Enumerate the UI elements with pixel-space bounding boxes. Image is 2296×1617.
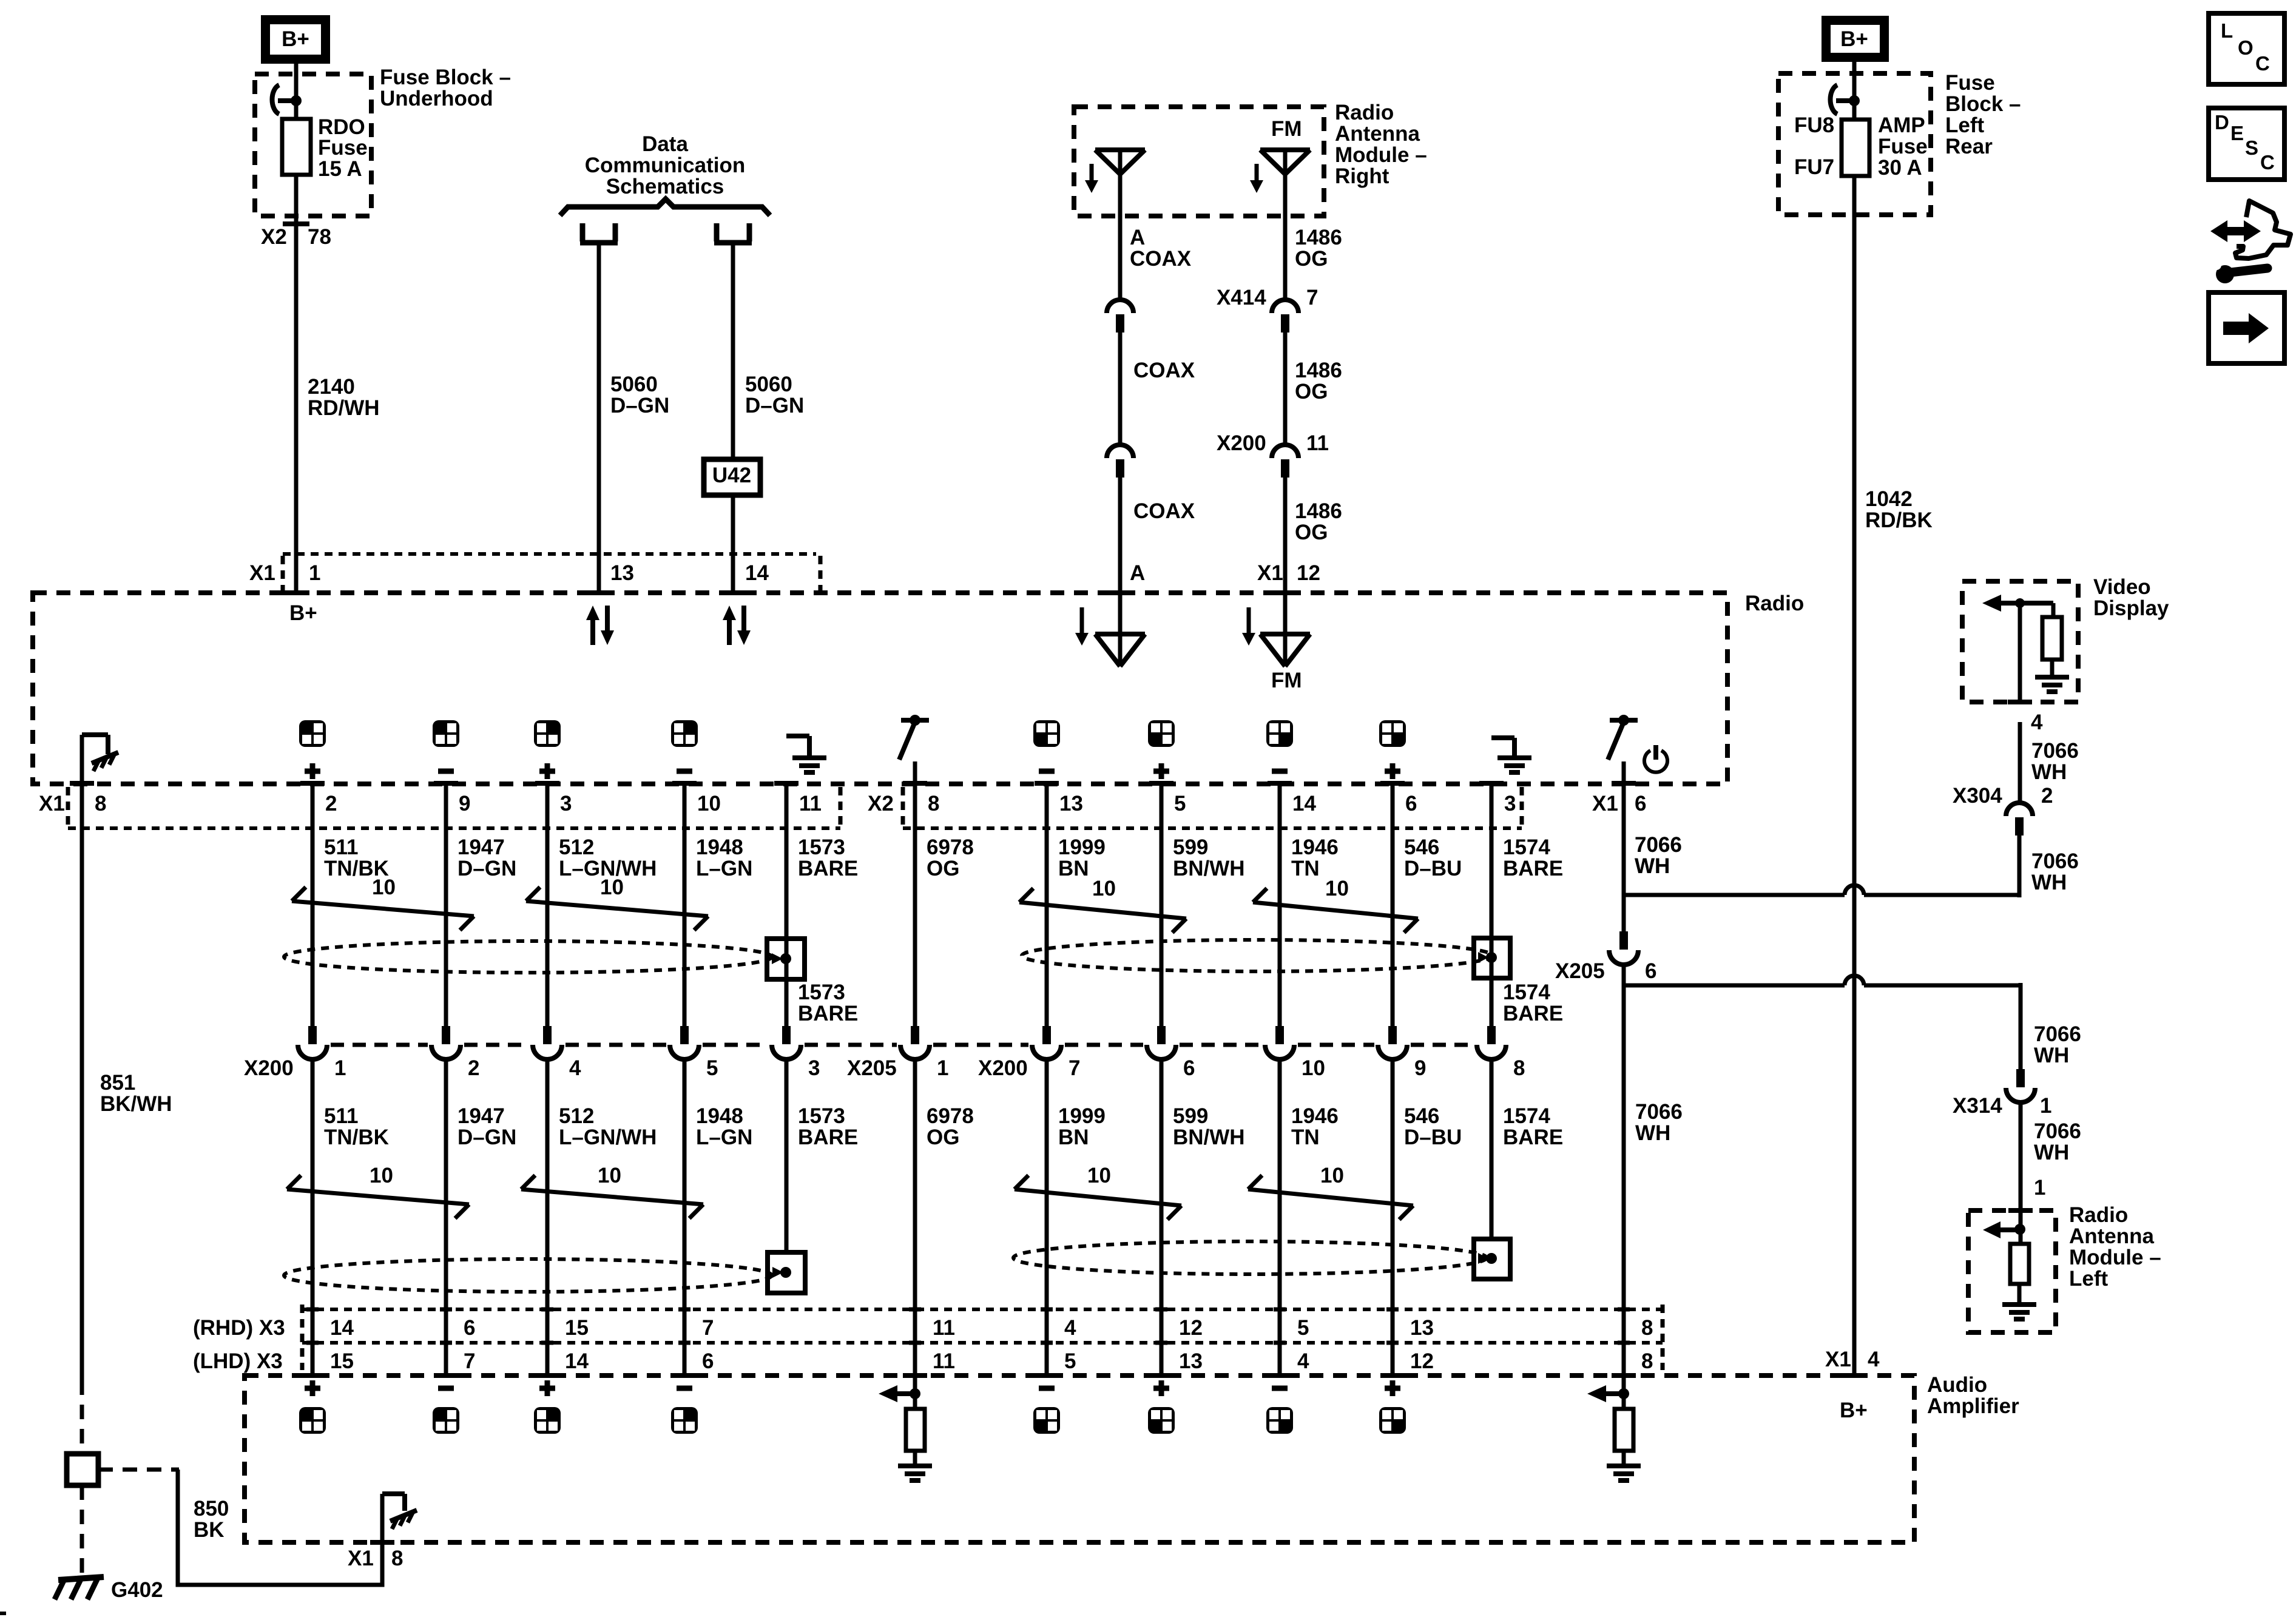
serial data up/down arrows (pin 14) xyxy=(727,619,732,645)
svg-text:WH: WH xyxy=(2031,760,2067,784)
svg-text:X2: X2 xyxy=(261,225,287,249)
svg-text:Module –: Module – xyxy=(2069,1246,2161,1269)
wire horizontal run 2 corner down to X314 xyxy=(2019,983,2023,1069)
plus sign RF+ (radio) xyxy=(539,769,555,774)
svg-text:7066: 7066 xyxy=(2034,1022,2081,1046)
svg-text:6978: 6978 xyxy=(927,1104,974,1128)
svg-text:D–GN: D–GN xyxy=(458,1126,516,1149)
svg-text:13: 13 xyxy=(610,561,634,585)
svg-text:1: 1 xyxy=(937,1056,948,1080)
svg-text:A: A xyxy=(1130,561,1145,585)
svg-text:COAX: COAX xyxy=(1130,247,1192,271)
signal down-arrow in module (right) xyxy=(1255,164,1259,181)
svg-text:TN/BK: TN/BK xyxy=(324,1126,389,1149)
svg-text:10: 10 xyxy=(370,1164,393,1187)
video display earth ground xyxy=(2035,675,2069,680)
svg-text:11: 11 xyxy=(1306,431,1329,455)
plus sign LR+ (radio) xyxy=(1153,769,1169,774)
amplifier chassis ground glyph xyxy=(390,1510,417,1521)
svg-text:X304: X304 xyxy=(1953,784,2002,808)
svg-text:7066: 7066 xyxy=(1635,833,1682,857)
amplifier internal arrow (6978) xyxy=(879,1385,897,1402)
svg-text:RD/BK: RD/BK xyxy=(1865,508,1933,532)
twisted-pair marker LR (lower) xyxy=(1015,1189,1181,1206)
svg-text:1: 1 xyxy=(334,1056,346,1080)
video display internal arrow xyxy=(1982,595,2001,612)
speaker icon LF+ (radio) xyxy=(299,720,326,747)
fusible clip symbol at AMP fuse xyxy=(1830,85,1837,114)
svg-text:11: 11 xyxy=(799,792,822,815)
shield ellipse right (upper) xyxy=(1022,940,1493,971)
connector X1 bracket left xyxy=(281,556,285,592)
svg-text:6: 6 xyxy=(702,1349,714,1373)
speaker icon RR+ (radio) xyxy=(1379,720,1406,747)
svg-text:3: 3 xyxy=(560,792,572,815)
svg-text:Antenna: Antenna xyxy=(1335,122,1420,146)
in-line connector X414 pin 7 xyxy=(1272,300,1298,313)
svg-text:9: 9 xyxy=(1414,1056,1426,1080)
svg-text:OG: OG xyxy=(927,1126,959,1149)
svg-text:4: 4 xyxy=(569,1056,581,1080)
svg-text:30 A: 30 A xyxy=(1878,156,1922,180)
svg-text:Fuse: Fuse xyxy=(1878,135,1928,158)
svg-text:BARE: BARE xyxy=(798,1126,858,1149)
Fuse Block - Left Rear dashed box xyxy=(1778,73,1931,215)
coax wire A segment 1 xyxy=(1118,174,1123,300)
wire 851 splice to G402 (dashed) xyxy=(80,1485,84,1573)
svg-text:Radio: Radio xyxy=(1335,101,1394,124)
svg-text:L: L xyxy=(2221,19,2233,42)
svg-text:B+: B+ xyxy=(282,27,309,51)
svg-text:10: 10 xyxy=(1302,1056,1325,1080)
wire video to X304 xyxy=(2018,722,2022,803)
svg-text:OG: OG xyxy=(1295,380,1328,403)
Audio Amplifier dashed box xyxy=(245,1376,1914,1542)
speaker wires radio to X200/X205 connectors (upper) xyxy=(311,783,315,1027)
svg-text:1947: 1947 xyxy=(458,836,505,859)
svg-text:14: 14 xyxy=(745,561,769,585)
antenna module left resistor xyxy=(2010,1244,2029,1284)
svg-text:4: 4 xyxy=(2031,711,2043,734)
antenna module left earth ground xyxy=(2002,1302,2036,1307)
power feed B+ terminal box (right) xyxy=(1822,16,1889,62)
svg-text:Module –: Module – xyxy=(1335,143,1427,167)
svg-text:12: 12 xyxy=(1297,561,1320,585)
wire 5060 D-GN (to X1 pin 13) xyxy=(597,243,601,593)
svg-text:BARE: BARE xyxy=(1503,857,1563,880)
ground splice junction box xyxy=(67,1454,98,1485)
svg-text:(RHD) X3: (RHD) X3 xyxy=(193,1316,285,1340)
FM antenna input symbol A xyxy=(1118,593,1123,666)
amplifier ground hook (850) xyxy=(382,1491,405,1496)
amplifier speaker output signs and icons xyxy=(305,1386,320,1391)
minus sign RR- (radio) xyxy=(1272,769,1288,774)
coax wire A segment 2 xyxy=(1118,333,1123,445)
svg-text:BN/WH: BN/WH xyxy=(1173,857,1245,880)
svg-text:1: 1 xyxy=(309,561,320,585)
plus sign RR+ (radio) xyxy=(1385,769,1400,774)
svg-text:TN: TN xyxy=(1291,1126,1320,1149)
wire 1042 RD/BK (fuse to amplifier X1 pin 4) xyxy=(1852,176,1857,1374)
pin 13 tick at radio X1 xyxy=(586,590,612,595)
wire 7066 WH radio to X205 xyxy=(1622,783,1626,931)
svg-text:Schematics: Schematics xyxy=(606,175,724,198)
svg-text:X205: X205 xyxy=(1555,959,1605,983)
svg-text:E: E xyxy=(2230,122,2244,144)
svg-text:WH: WH xyxy=(1635,854,1670,878)
svg-text:10: 10 xyxy=(1325,877,1349,900)
svg-text:1486: 1486 xyxy=(1295,226,1342,249)
svg-text:7: 7 xyxy=(1306,286,1318,309)
svg-text:10: 10 xyxy=(697,792,721,815)
svg-text:WH: WH xyxy=(2031,871,2067,894)
svg-text:1573: 1573 xyxy=(798,836,845,859)
svg-text:7066: 7066 xyxy=(2031,739,2079,763)
svg-text:8: 8 xyxy=(1513,1056,1525,1080)
svg-text:Radio: Radio xyxy=(2069,1203,2128,1227)
svg-text:14: 14 xyxy=(565,1349,589,1373)
twisted-pair marker RR (lower) xyxy=(1248,1189,1413,1206)
svg-text:O: O xyxy=(2238,36,2254,59)
shield termination box 1574 (upper) xyxy=(1474,938,1510,978)
svg-text:WH: WH xyxy=(2034,1141,2069,1164)
fuse RDO 15A symbol xyxy=(282,119,311,175)
pin A tick at radio X1 xyxy=(1107,590,1133,595)
svg-text:546: 546 xyxy=(1404,836,1439,859)
svg-text:9: 9 xyxy=(459,792,470,815)
svg-text:Block –: Block – xyxy=(1945,92,2021,116)
page-link terminal (serial data wire 2) xyxy=(714,223,752,243)
next-page arrow icon box xyxy=(2209,292,2284,363)
speaker icon LR- (radio) xyxy=(1033,720,1060,747)
splice U42 box xyxy=(704,459,760,495)
svg-text:Rear: Rear xyxy=(1945,135,1993,158)
svg-text:TN: TN xyxy=(1291,857,1320,880)
svg-text:FU8: FU8 xyxy=(1794,113,1834,137)
diagnostic hand icon wrench xyxy=(2216,265,2234,283)
amplifier internal resistor (7066) xyxy=(1615,1409,1633,1451)
speaker icon RF- (radio) xyxy=(671,720,698,747)
svg-text:U42: U42 xyxy=(712,464,751,487)
svg-text:Fuse Block –: Fuse Block – xyxy=(380,66,511,89)
Radio Antenna Module - Left dashed box xyxy=(1968,1210,2056,1332)
coax wire FM segment 3 xyxy=(1283,478,1288,593)
Video Display dashed box xyxy=(1962,581,2078,702)
svg-text:1574: 1574 xyxy=(1503,1104,1550,1128)
svg-text:8: 8 xyxy=(928,792,939,815)
svg-text:S: S xyxy=(2245,137,2258,159)
FM antenna down-arrow left xyxy=(1080,607,1084,633)
svg-text:X414: X414 xyxy=(1217,286,1266,309)
svg-text:6: 6 xyxy=(1183,1056,1195,1080)
svg-text:WH: WH xyxy=(2034,1044,2069,1067)
pin 12 tick at radio X1 xyxy=(1272,590,1298,595)
fusible clip symbol at RDO fuse xyxy=(272,85,279,114)
svg-text:FU7: FU7 xyxy=(1794,155,1834,179)
svg-text:FM: FM xyxy=(1271,117,1302,141)
svg-text:8: 8 xyxy=(95,792,106,815)
twisted-pair marker LF (lower) xyxy=(287,1189,469,1204)
svg-text:3: 3 xyxy=(808,1056,820,1080)
svg-text:L–GN: L–GN xyxy=(696,857,752,880)
amplifier input junction (6978) xyxy=(913,1376,917,1409)
svg-text:X1: X1 xyxy=(39,792,65,815)
svg-text:FM: FM xyxy=(1271,669,1302,692)
connector strip X1 dotted line (bottom) xyxy=(68,826,840,830)
shield termination box 1574 (lower) xyxy=(1474,1239,1510,1279)
module left pin tick xyxy=(2008,1208,2033,1213)
FM antenna down-arrow right xyxy=(1247,607,1251,633)
svg-text:D–BU: D–BU xyxy=(1404,1126,1462,1149)
connector X1 bracket right xyxy=(819,556,823,592)
svg-text:12: 12 xyxy=(1179,1316,1203,1340)
svg-text:5: 5 xyxy=(1297,1316,1309,1340)
wire 851 BK/WH (radio ground) xyxy=(80,735,84,1380)
svg-text:COAX: COAX xyxy=(1133,359,1195,382)
speaker icon RR- (radio) xyxy=(1266,720,1293,747)
amplifier internal arrow (7066) xyxy=(1587,1385,1606,1402)
svg-text:10: 10 xyxy=(1092,877,1116,900)
svg-text:850: 850 xyxy=(194,1497,229,1521)
svg-text:1948: 1948 xyxy=(696,1104,743,1128)
svg-text:Right: Right xyxy=(1335,164,1389,188)
svg-text:L–GN/WH: L–GN/WH xyxy=(559,1126,657,1149)
svg-text:Amplifier: Amplifier xyxy=(1927,1394,2019,1418)
svg-text:15: 15 xyxy=(565,1316,589,1340)
X3 strip wire ticks xyxy=(306,1308,319,1312)
svg-text:Data: Data xyxy=(642,132,688,156)
svg-text:B+: B+ xyxy=(1840,27,1868,51)
X200/X205 connector link dashes xyxy=(331,1043,428,1047)
svg-text:13: 13 xyxy=(1410,1316,1434,1340)
svg-text:599: 599 xyxy=(1173,836,1208,859)
svg-text:Audio: Audio xyxy=(1927,1373,1987,1397)
wire 7066 WH horizontal run 2 (to X314) xyxy=(1625,984,1845,988)
in-line connector X304 pin 2 xyxy=(2006,803,2033,816)
connector strip X1 dotted line (top) xyxy=(283,552,816,556)
svg-text:6: 6 xyxy=(1645,959,1656,983)
svg-text:B+: B+ xyxy=(289,601,317,625)
shield termination box 1573 (upper) xyxy=(767,939,805,979)
in-line connector X205 pin 6 xyxy=(1619,931,1628,950)
diagnostic hand icon double arrow xyxy=(2210,220,2261,242)
svg-text:C: C xyxy=(2260,151,2275,174)
pin 8 tick at amplifier X1 (850) xyxy=(370,1540,394,1545)
svg-text:7066: 7066 xyxy=(2034,1119,2081,1143)
radio shield ground hook (1574) xyxy=(1491,735,1514,740)
svg-text:Fuse: Fuse xyxy=(318,136,368,160)
twisted-pair marker RF (upper) xyxy=(526,901,708,916)
diagnostic hand icon outline xyxy=(2235,201,2291,258)
svg-text:1946: 1946 xyxy=(1291,836,1339,859)
svg-text:X200: X200 xyxy=(1217,431,1266,455)
power feed B+ terminal box (left) xyxy=(261,15,330,64)
svg-text:Left: Left xyxy=(1945,113,1985,137)
svg-text:B+: B+ xyxy=(1840,1399,1868,1422)
svg-text:7: 7 xyxy=(702,1316,714,1340)
svg-text:10: 10 xyxy=(1087,1164,1111,1187)
svg-text:X314: X314 xyxy=(1953,1094,2002,1118)
svg-text:8: 8 xyxy=(1641,1316,1653,1340)
Radio Antenna Module - Right dashed box xyxy=(1074,107,1324,216)
svg-text:OG: OG xyxy=(927,857,959,880)
wire 7066 WH horizontal run 1 (to video display) xyxy=(1624,893,1845,897)
radio shield earth ground (1574) xyxy=(1497,755,1531,760)
minus sign LR- (radio) xyxy=(1039,769,1055,774)
video display internal resistor branch xyxy=(2051,603,2056,617)
svg-text:13: 13 xyxy=(1059,792,1083,815)
shield termination box 1573 (lower) xyxy=(768,1252,805,1293)
wire 851 dashed section xyxy=(80,1380,84,1454)
svg-text:5: 5 xyxy=(1174,792,1186,815)
pin 14 tick at radio X1 xyxy=(720,590,746,595)
twisted-pair marker LR (upper) xyxy=(1019,902,1186,919)
svg-text:7066: 7066 xyxy=(1635,1100,1683,1124)
svg-text:14: 14 xyxy=(1292,792,1316,815)
speaker icon LR+ (radio) xyxy=(1148,720,1175,747)
svg-text:78: 78 xyxy=(308,225,331,249)
svg-text:(LHD) X3: (LHD) X3 xyxy=(193,1349,283,1373)
svg-text:5060: 5060 xyxy=(610,373,658,396)
svg-text:X200: X200 xyxy=(244,1056,294,1080)
svg-text:BN: BN xyxy=(1058,857,1089,880)
svg-text:512: 512 xyxy=(559,1104,594,1128)
page-link terminal (serial data wire 1) xyxy=(580,223,618,243)
connector X3 RHD dotted line xyxy=(302,1308,1663,1311)
radio bottom pin ticks and numbers xyxy=(1612,781,1636,786)
svg-text:1946: 1946 xyxy=(1291,1104,1339,1128)
svg-text:X200: X200 xyxy=(978,1056,1028,1080)
svg-text:1999: 1999 xyxy=(1058,836,1106,859)
svg-text:Left: Left xyxy=(2069,1267,2109,1291)
shield ellipse left (upper) xyxy=(284,941,772,973)
svg-text:7066: 7066 xyxy=(2031,849,2079,873)
svg-text:X1: X1 xyxy=(1257,561,1283,585)
svg-text:BK: BK xyxy=(194,1518,225,1542)
svg-text:Video: Video xyxy=(2093,575,2151,599)
svg-text:BARE: BARE xyxy=(1503,1002,1563,1025)
connector X3 LHD dotted line xyxy=(302,1341,1663,1345)
svg-text:511: 511 xyxy=(324,836,358,859)
svg-text:4: 4 xyxy=(1297,1349,1309,1373)
svg-text:2: 2 xyxy=(468,1056,479,1080)
coax wire A segment 3 xyxy=(1118,478,1123,593)
svg-text:15: 15 xyxy=(330,1349,354,1373)
wire from B+ to fuse RDO xyxy=(294,64,299,119)
DESC icon box xyxy=(2209,108,2284,180)
speaker icon RF+ (radio) xyxy=(534,720,561,747)
twisted-pair marker RR (upper) xyxy=(1253,902,1418,919)
FM antenna input symbol FM xyxy=(1283,593,1288,666)
svg-text:BK/WH: BK/WH xyxy=(100,1092,172,1116)
wire 7066 WH below X205 xyxy=(1622,964,1626,1374)
antenna module left junction and arrow xyxy=(2019,1210,2023,1244)
fuse AMP 30A symbol xyxy=(1842,120,1869,176)
Fuse Block - Underhood dashed box xyxy=(255,74,371,216)
amplifier earth ground (6978) xyxy=(898,1463,932,1468)
svg-text:11: 11 xyxy=(933,1316,955,1340)
svg-text:13: 13 xyxy=(1179,1349,1203,1373)
radio shield earth ground (1573) xyxy=(792,755,826,760)
svg-text:WH: WH xyxy=(1635,1121,1670,1145)
connector X3 bracket right xyxy=(1661,1305,1665,1370)
svg-text:1574: 1574 xyxy=(1503,981,1550,1004)
svg-text:Radio: Radio xyxy=(1745,592,1804,615)
radio power-on symbol xyxy=(1644,751,1667,772)
svg-text:BN/WH: BN/WH xyxy=(1173,1126,1245,1149)
antenna symbol A xyxy=(1095,147,1145,152)
plus sign LF+ (radio) xyxy=(305,769,320,774)
wire X314 to antenna module left xyxy=(2019,1101,2023,1209)
svg-text:10: 10 xyxy=(600,876,624,899)
speaker wires X200/X205 to amplifier (lower) xyxy=(311,1058,315,1374)
minus sign LF- (radio) xyxy=(438,769,454,774)
svg-text:5060: 5060 xyxy=(745,373,792,396)
svg-text:1573: 1573 xyxy=(798,1104,845,1128)
connector X2 bracket left xyxy=(901,787,905,825)
svg-text:6: 6 xyxy=(1635,792,1646,815)
in-line connector X314 pin 1 xyxy=(2016,1069,2025,1087)
svg-text:BARE: BARE xyxy=(1503,1126,1563,1149)
antenna symbol FM xyxy=(1260,147,1310,152)
brace under Data Communication Schematics xyxy=(560,199,770,215)
connector strip X2 dotted line (bottom) xyxy=(903,826,1522,830)
wire from B+ to AMP fuse xyxy=(1852,62,1857,120)
connector X3 bracket left xyxy=(300,1305,305,1370)
svg-text:BN: BN xyxy=(1058,1126,1089,1149)
speaker icon LF- (radio) xyxy=(433,720,459,747)
radio shield ground hook (1573) xyxy=(786,734,809,738)
antenna module left ground wire xyxy=(2017,1284,2022,1303)
radio internal chassis ground glyph (left) xyxy=(92,752,118,763)
svg-text:8: 8 xyxy=(1641,1349,1653,1373)
svg-text:10: 10 xyxy=(1320,1164,1344,1187)
svg-text:2140: 2140 xyxy=(308,375,355,399)
svg-text:511: 511 xyxy=(324,1104,358,1128)
svg-text:1: 1 xyxy=(2040,1094,2051,1118)
svg-text:D–GN: D–GN xyxy=(745,394,804,417)
svg-text:851: 851 xyxy=(100,1071,135,1095)
svg-text:7: 7 xyxy=(464,1349,475,1373)
radio internal switch (7066 output) xyxy=(1610,718,1638,723)
svg-text:A: A xyxy=(1130,226,1145,249)
svg-text:6: 6 xyxy=(1405,792,1417,815)
svg-text:1574: 1574 xyxy=(1503,836,1550,859)
svg-text:Display: Display xyxy=(2093,596,2169,620)
svg-text:1486: 1486 xyxy=(1295,499,1342,523)
svg-text:RD/WH: RD/WH xyxy=(308,396,380,420)
svg-text:X1: X1 xyxy=(348,1547,374,1570)
amplifier input junction (7066) xyxy=(1622,1376,1626,1409)
amplifier internal ground wire (6978) xyxy=(913,1451,917,1465)
shield ellipse right (lower) xyxy=(1013,1241,1487,1274)
svg-text:OG: OG xyxy=(1295,521,1328,544)
minus sign RF- (radio) xyxy=(677,769,692,774)
shield ellipse left (lower) xyxy=(284,1259,772,1292)
svg-text:C: C xyxy=(2255,52,2270,75)
page corner mark xyxy=(0,1612,6,1615)
svg-text:Underhood: Underhood xyxy=(380,87,493,110)
wire from RDO fuse to X2 pin 78 xyxy=(294,175,299,593)
connector X1 bottom bracket right xyxy=(839,787,843,825)
svg-text:10: 10 xyxy=(598,1164,621,1187)
svg-text:599: 599 xyxy=(1173,1104,1208,1128)
svg-text:1573: 1573 xyxy=(798,981,845,1004)
connector X2 bracket right xyxy=(1520,787,1524,825)
svg-text:1947: 1947 xyxy=(458,1104,505,1128)
svg-text:Antenna: Antenna xyxy=(2069,1224,2155,1248)
svg-text:10: 10 xyxy=(372,876,396,899)
